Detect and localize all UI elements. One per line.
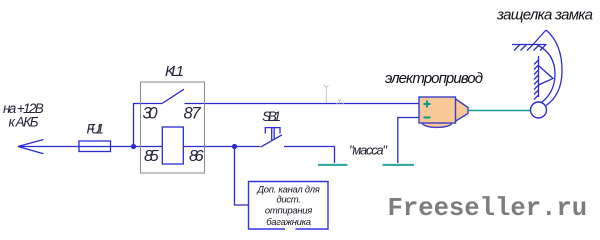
svg-text:86: 86 <box>189 148 204 165</box>
svg-text:FU1: FU1 <box>87 122 104 137</box>
svg-text:защелка замка: защелка замка <box>496 7 593 24</box>
svg-text:KL1: KL1 <box>165 63 184 80</box>
svg-text:к АКБ: к АКБ <box>9 115 39 130</box>
svg-text:Freeseller.ru: Freeseller.ru <box>388 194 588 223</box>
svg-text:электропривод: электропривод <box>385 70 483 87</box>
svg-text:дист.: дист. <box>276 195 300 206</box>
svg-text:85: 85 <box>144 148 159 165</box>
svg-text:багажника: багажника <box>266 217 311 228</box>
svg-text:87: 87 <box>184 105 202 123</box>
svg-text:SB1: SB1 <box>262 108 281 124</box>
svg-text:отпирания: отпирания <box>265 206 312 217</box>
svg-text:"масса": "масса" <box>349 143 388 158</box>
svg-text:30: 30 <box>143 105 159 123</box>
